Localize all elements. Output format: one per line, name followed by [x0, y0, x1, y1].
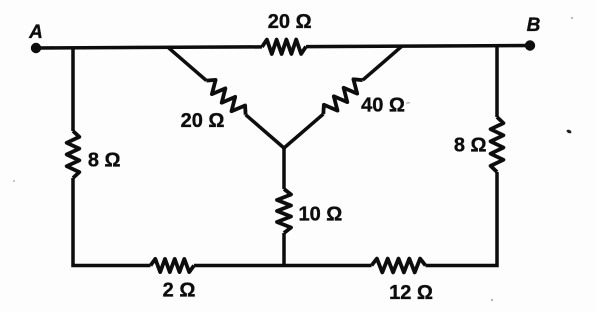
- svg-text:A: A: [28, 22, 43, 43]
- svg-text:2 Ω: 2 Ω: [163, 280, 196, 302]
- svg-text:8 Ω: 8 Ω: [454, 135, 487, 157]
- svg-text:40 Ω: 40 Ω: [361, 95, 405, 117]
- svg-text:B: B: [527, 15, 541, 36]
- svg-text:20 Ω: 20 Ω: [181, 110, 225, 132]
- svg-text:20 Ω: 20 Ω: [268, 11, 312, 33]
- svg-text:12 Ω: 12 Ω: [389, 282, 433, 304]
- svg-text:8 Ω: 8 Ω: [88, 150, 121, 172]
- svg-text:10 Ω: 10 Ω: [298, 204, 342, 226]
